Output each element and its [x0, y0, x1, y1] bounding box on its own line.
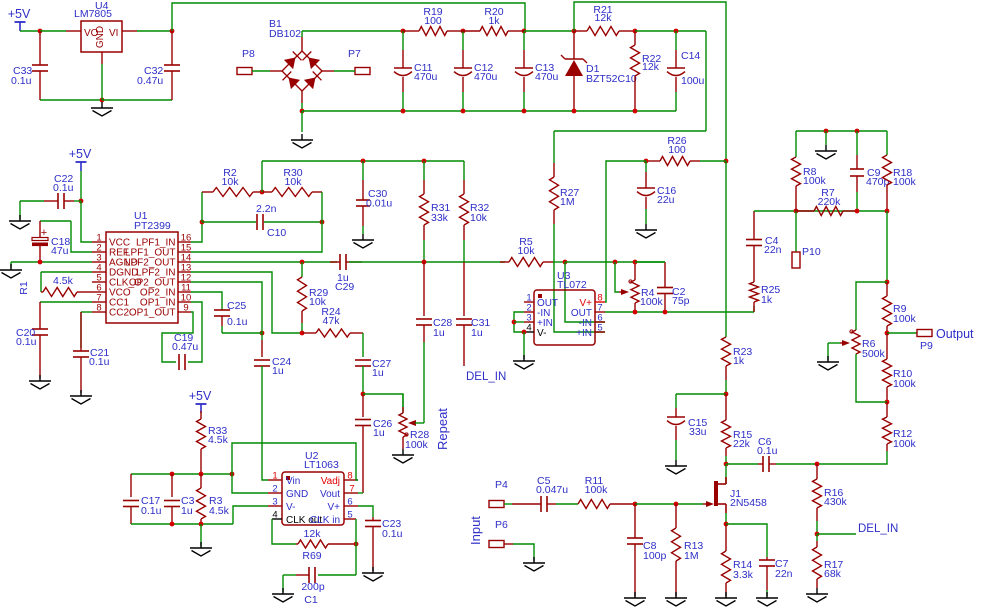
potentiometer R28: [399, 394, 429, 451]
capacitor C21: [73, 312, 110, 393]
capacitor C9: [850, 131, 890, 211]
node junction: [815, 462, 820, 467]
node junction: [361, 392, 366, 397]
svg-text:5: 5: [347, 510, 352, 521]
svg-text:1k: 1k: [488, 15, 500, 27]
svg-text:Vout: Vout: [320, 489, 340, 500]
ground: [190, 542, 212, 556]
resistor R8: [792, 157, 827, 211]
wire (top net): [262, 160, 464, 162]
ground: [70, 390, 92, 404]
capacitor C15: [667, 408, 707, 460]
capacitor C29: [330, 254, 362, 293]
ground: [352, 234, 374, 248]
wire: [363, 394, 403, 413]
node junction: [522, 330, 527, 335]
svg-text:4.5k: 4.5k: [53, 275, 74, 287]
wire (AGND): [11, 262, 92, 268]
svg-text:C25: C25: [227, 300, 246, 312]
node junction: [885, 331, 890, 336]
resistor R7: [796, 187, 857, 216]
node junction: [724, 522, 729, 527]
svg-text:470p: 470p: [866, 176, 890, 188]
node junction: [522, 109, 527, 114]
svg-text:10k: 10k: [470, 212, 488, 224]
node junction: [815, 532, 820, 537]
svg-text:100k: 100k: [893, 438, 917, 450]
ground: [29, 375, 51, 389]
wire (pin12): [191, 282, 262, 333]
bridge rectifier B1: [269, 18, 334, 103]
svg-text:22u: 22u: [657, 194, 675, 206]
svg-text:33k: 33k: [431, 212, 449, 224]
node junction: [563, 260, 568, 265]
svg-text:+5V: +5V: [189, 389, 212, 403]
capacitor C32: [137, 31, 180, 100]
wire: [222, 332, 262, 334]
wire (wiper from C28): [423, 422, 425, 424]
ground: [362, 567, 384, 581]
svg-text:BZT52C10: BZT52C10: [586, 73, 637, 85]
op-amp U2 LT1063 filter IC: [268, 450, 358, 526]
wire: [200, 524, 202, 546]
wire: [504, 544, 534, 561]
node junction: [885, 400, 890, 405]
resistor R26: [646, 135, 726, 166]
wire (pin13): [191, 272, 303, 333]
svg-text:C29: C29: [335, 281, 354, 293]
node junction: [522, 29, 527, 34]
svg-text:9: 9: [183, 303, 188, 314]
svg-text:100u: 100u: [681, 75, 705, 87]
resistor R29: [298, 277, 329, 333]
resistor R17: [813, 534, 844, 588]
ground: [715, 592, 737, 606]
wire (to Vin pin1): [262, 366, 268, 480]
wire: [20, 30, 40, 32]
svg-text:LT1063: LT1063: [304, 459, 339, 471]
wire: [753, 306, 755, 312]
svg-text:P10: P10: [802, 246, 821, 258]
svg-text:Vadj: Vadj: [321, 476, 340, 487]
svg-text:100k: 100k: [893, 378, 917, 390]
capacitor C7: [759, 557, 793, 596]
wire (bias divider rail): [796, 131, 887, 157]
wire: [362, 333, 364, 357]
svg-text:47u: 47u: [51, 245, 69, 257]
wire: [201, 192, 203, 222]
wire: [635, 31, 706, 131]
capacitor C4: [746, 211, 782, 256]
wire: [554, 130, 706, 132]
capacitor C1: [283, 567, 356, 606]
node junction: [572, 109, 577, 114]
wire: [556, 503, 578, 505]
svg-text:100p: 100p: [643, 550, 667, 562]
resistor R32: [460, 161, 490, 262]
ground: [806, 588, 828, 602]
node junction: [79, 199, 84, 204]
capacitor C8: [627, 504, 667, 596]
wire (V- pin3): [233, 506, 268, 524]
svg-text:470u: 470u: [535, 71, 559, 83]
node junction: [100, 98, 105, 103]
node junction: [512, 320, 517, 325]
capacitor C2: [657, 262, 690, 312]
wire (top rail B): [574, 2, 726, 161]
resistor R15: [722, 394, 753, 464]
svg-text:22n: 22n: [764, 244, 782, 256]
resistor R3: [197, 474, 230, 524]
wire (GND pin2): [232, 474, 268, 493]
wire (pins 2-3-4 tie): [514, 312, 524, 332]
capacitor C18 (electrolytic): [32, 221, 70, 262]
capacitor C11: [394, 31, 438, 111]
net label Repeat: [435, 408, 450, 450]
node junction: [724, 159, 729, 164]
svg-text:1k: 1k: [761, 294, 773, 306]
wire (decoupling rail): [131, 473, 232, 475]
svg-text:Repeat: Repeat: [435, 408, 450, 450]
wire: [817, 451, 887, 464]
svg-text:100k: 100k: [640, 296, 664, 308]
node junction: [633, 109, 638, 114]
node junction: [422, 159, 427, 164]
ground: [665, 592, 687, 606]
connector P10: [792, 211, 821, 268]
capacitor C10: [202, 203, 322, 239]
node junction: [633, 502, 638, 507]
wire (pin11 to C25): [191, 292, 222, 309]
connector P8: [237, 48, 255, 75]
transistor J1 2N5458: [703, 464, 767, 513]
node junction: [260, 190, 265, 195]
svg-text:10k: 10k: [518, 245, 536, 257]
capacitor C25: [214, 300, 248, 333]
resistor R69: [296, 528, 356, 562]
node junction: [885, 209, 890, 214]
wire: [523, 332, 525, 359]
svg-text:GND: GND: [95, 26, 106, 48]
wire: [886, 211, 888, 282]
svg-text:1u: 1u: [272, 365, 284, 377]
svg-text:200p: 200p: [301, 581, 325, 593]
wire (rail to VI from filter): [172, 3, 525, 31]
wire: [252, 70, 270, 72]
potentiometer R4: [615, 262, 664, 312]
svg-text:GND: GND: [286, 489, 308, 500]
ground: [665, 460, 687, 474]
capacitor C26: [355, 394, 392, 493]
resistor R2: [202, 167, 262, 197]
svg-text:4: 4: [272, 510, 277, 521]
connector P7: [348, 48, 370, 75]
svg-text:470u: 470u: [474, 71, 498, 83]
svg-text:75p: 75p: [672, 295, 690, 307]
node junction: [724, 462, 729, 467]
svg-text:Output: Output: [936, 327, 974, 341]
node junction: [461, 109, 466, 114]
wire: [565, 261, 665, 263]
wire: [20, 201, 81, 219]
svg-text:3.3k: 3.3k: [733, 569, 754, 581]
svg-text:0.1u: 0.1u: [227, 316, 248, 328]
wire: [191, 222, 202, 242]
node junction: [633, 29, 638, 34]
svg-text:P9: P9: [920, 340, 933, 352]
svg-text:2N5458: 2N5458: [730, 497, 767, 509]
svg-text:+5V: +5V: [69, 147, 92, 161]
connector P9: [917, 330, 933, 353]
ground: [513, 355, 535, 369]
svg-text:12k: 12k: [595, 12, 613, 24]
resistor R22: [631, 31, 662, 111]
svg-text:+IN: +IN: [576, 328, 592, 339]
svg-text:+5V: +5V: [8, 7, 31, 21]
node junction: [354, 542, 359, 547]
svg-text:V+: V+: [327, 502, 340, 513]
connector P6: [489, 519, 508, 548]
capacitor C31: [456, 262, 490, 366]
node junction: [663, 310, 668, 315]
ground: [817, 356, 839, 370]
node junction: [885, 280, 890, 285]
svg-text:C10: C10: [267, 227, 286, 239]
capacitor C23: [365, 517, 403, 571]
wire (0V rail): [302, 110, 676, 112]
resistor R20: [463, 6, 524, 36]
power +5V symbol: [189, 389, 212, 413]
capacitor C3: [164, 474, 195, 524]
node junction: [401, 109, 406, 114]
ground: [9, 215, 31, 229]
wire (to +IN pin5): [554, 262, 605, 332]
svg-text:1u: 1u: [181, 505, 193, 517]
svg-text:3: 3: [272, 497, 277, 508]
svg-text:0.047u: 0.047u: [536, 484, 568, 496]
svg-text:C1: C1: [304, 594, 318, 606]
net label DEL_IN: [858, 523, 898, 535]
node junction: [674, 502, 679, 507]
svg-text:P4: P4: [495, 479, 508, 491]
svg-text:0.1u: 0.1u: [757, 445, 778, 457]
svg-text:100: 100: [668, 144, 686, 156]
wire: [887, 332, 917, 334]
node junction: [170, 29, 175, 34]
svg-text:1u: 1u: [433, 327, 445, 339]
regulator U4 LM7805: [66, 0, 137, 64]
svg-text:10k: 10k: [222, 176, 240, 188]
power +5V symbol (regulator output): [8, 7, 31, 31]
wire (Vadj pin8): [232, 443, 358, 480]
svg-text:1u: 1u: [373, 427, 385, 439]
ground: [523, 557, 545, 571]
svg-text:1M: 1M: [684, 550, 699, 562]
node junction: [320, 220, 325, 225]
wire (V+ pin6 to C23): [358, 506, 373, 517]
ground: [291, 134, 313, 148]
wire: [524, 30, 574, 32]
svg-text:100k: 100k: [585, 484, 609, 496]
resistor R11: [578, 475, 635, 509]
wire (op-amp out): [605, 311, 754, 313]
wire: [676, 394, 726, 408]
capacitor C16: [637, 161, 676, 224]
svg-text:DEL_IN: DEL_IN: [466, 371, 506, 383]
svg-text:Input: Input: [468, 516, 483, 545]
svg-text:0.47u: 0.47u: [137, 75, 163, 87]
node junction: [38, 29, 43, 34]
resistor R33: [197, 411, 229, 474]
wire: [131, 523, 233, 525]
svg-text:R1: R1: [18, 281, 30, 295]
svg-text:1u: 1u: [471, 327, 483, 339]
resistor R16: [813, 464, 848, 534]
svg-text:100: 100: [424, 15, 442, 27]
svg-text:220k: 220k: [818, 196, 842, 208]
svg-text:2: 2: [272, 484, 277, 495]
ground: [635, 224, 657, 238]
svg-text:P7: P7: [348, 48, 361, 60]
wire: [635, 261, 665, 263]
ground: [815, 145, 837, 159]
wire: [40, 99, 102, 101]
node junction: [724, 392, 729, 397]
power +5V symbol: [69, 147, 92, 171]
resistor R14: [722, 524, 754, 596]
svg-text:100k: 100k: [803, 175, 827, 187]
resistor R1: [18, 275, 92, 297]
node junction: [300, 331, 305, 336]
svg-text:Vin: Vin: [286, 476, 300, 487]
node junction: [361, 159, 366, 164]
svg-text:DEL_IN: DEL_IN: [858, 523, 898, 535]
resistor R12: [883, 402, 917, 451]
ground: [392, 449, 414, 463]
resistor R30: [262, 167, 322, 197]
ground: [756, 592, 778, 606]
svg-text:4.5k: 4.5k: [208, 434, 229, 446]
node junction: [824, 129, 829, 134]
svg-text:47k: 47k: [323, 315, 341, 327]
node junction: [170, 522, 204, 527]
node junction: [613, 260, 618, 265]
svg-text:100k: 100k: [893, 176, 917, 188]
capacitor C13: [515, 31, 559, 111]
node junction: [200, 220, 205, 225]
wire: [825, 131, 827, 145]
node junction: [633, 260, 638, 265]
resistor R24: [303, 306, 363, 337]
resistor R9: [883, 282, 917, 333]
svg-text:12k: 12k: [642, 61, 660, 73]
svg-text:430k: 430k: [824, 496, 848, 508]
op-amp U1 PT2399 delay IC: [92, 210, 191, 323]
svg-text:V-: V-: [537, 328, 546, 339]
wire: [40, 30, 66, 32]
capacitor C5: [512, 475, 568, 512]
node junction: [422, 260, 427, 265]
svg-text:0.1u: 0.1u: [89, 356, 110, 368]
wire (gate): [635, 503, 703, 505]
wire: [137, 30, 172, 32]
svg-text:LM7805: LM7805: [74, 8, 112, 20]
node junction: [461, 29, 466, 34]
wire: [355, 519, 357, 575]
net label DEL_IN: [466, 371, 506, 383]
wire: [261, 161, 263, 192]
wire: [301, 103, 303, 111]
resistor R5: [500, 236, 565, 267]
resistor R18: [883, 155, 917, 211]
node junction: [300, 109, 305, 114]
svg-text:22k: 22k: [733, 438, 751, 450]
svg-text:0.47u: 0.47u: [172, 341, 198, 353]
svg-text:OP1_OUT: OP1_OUT: [129, 308, 176, 319]
svg-text:6: 6: [347, 497, 352, 508]
wire: [726, 463, 758, 465]
svg-text:7: 7: [349, 484, 354, 495]
wire (Vout pin7): [358, 492, 363, 494]
resistor R27: [550, 131, 580, 262]
resistor R19: [403, 6, 463, 36]
connector P4: [489, 479, 508, 508]
svg-text:TL072: TL072: [557, 279, 587, 291]
ground: [91, 102, 113, 116]
potentiometer R6: [828, 282, 887, 402]
svg-text:0.1u: 0.1u: [141, 505, 162, 517]
wire: [776, 463, 817, 465]
node junction: [855, 209, 860, 214]
wire: [41, 272, 92, 292]
svg-text:VI: VI: [109, 28, 118, 39]
node junction: [794, 209, 799, 214]
svg-text:8: 8: [96, 303, 101, 314]
wire: [726, 524, 767, 557]
op-amp U3 TL072: [524, 270, 605, 345]
wire (V+ rail down): [725, 161, 727, 337]
wire: [349, 261, 505, 263]
svg-text:V-: V-: [286, 502, 295, 513]
svg-text:500k: 500k: [862, 348, 886, 360]
svg-text:33u: 33u: [689, 426, 707, 438]
capacitor C6: [757, 436, 778, 472]
svg-text:1: 1: [272, 471, 277, 482]
wire: [81, 201, 92, 242]
wire: [282, 575, 284, 592]
wire (V+ to op-amp): [605, 161, 646, 302]
node junction: [633, 310, 638, 315]
svg-text:100k: 100k: [893, 313, 917, 325]
svg-text:5: 5: [597, 323, 602, 334]
net label Output: [936, 327, 974, 341]
svg-text:CC2: CC2: [109, 308, 129, 319]
svg-text:0.1u: 0.1u: [382, 528, 403, 540]
diode D1 BZT52C10: [561, 31, 637, 111]
net label Input: [468, 516, 483, 545]
svg-text:PT2399: PT2399: [134, 220, 171, 232]
wire: [191, 192, 322, 252]
capacitor C27: [355, 358, 391, 379]
svg-text:10k: 10k: [285, 176, 303, 188]
svg-text:100k: 100k: [405, 439, 429, 451]
capacitor C20: [16, 302, 48, 378]
svg-text:68k: 68k: [824, 568, 842, 580]
capacitor C28: [416, 262, 452, 423]
capacitor C30: [356, 161, 392, 234]
svg-text:1k: 1k: [733, 355, 745, 367]
capacitor C22: [44, 173, 74, 209]
